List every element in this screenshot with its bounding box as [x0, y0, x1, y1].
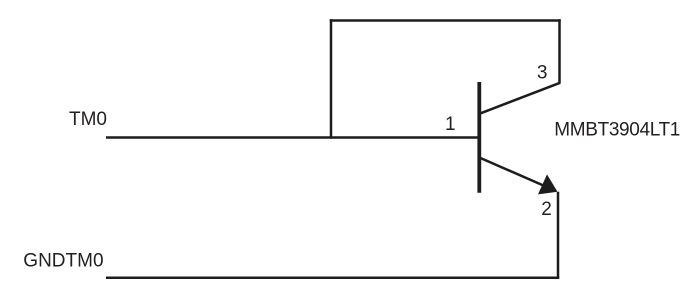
- svg-text:3: 3: [537, 63, 548, 84]
- wire feedback top horizontal: [330, 19, 561, 22]
- wire pin 2 vertical: [557, 192, 560, 279]
- svg-text:MMBT3904LT1: MMBT3904LT1: [554, 119, 680, 140]
- emitter line: [479, 158, 556, 192]
- svg-text:TM0: TM0: [69, 109, 107, 130]
- wire pin 3 vertical: [558, 19, 561, 83]
- collector line: [479, 83, 560, 114]
- base bar: [477, 82, 481, 193]
- svg-text:2: 2: [541, 199, 552, 220]
- transistor Q1 MMBT3904LT1: [479, 82, 560, 194]
- wire GNDTM0 horizontal: [106, 276, 559, 279]
- svg-text:1: 1: [445, 114, 456, 135]
- wire feedback left vertical: [330, 19, 333, 139]
- svg-text:GNDTM0: GNDTM0: [23, 250, 103, 271]
- emitter arrowhead: [538, 174, 558, 194]
- wire TM0 horizontal to base: [106, 136, 480, 139]
